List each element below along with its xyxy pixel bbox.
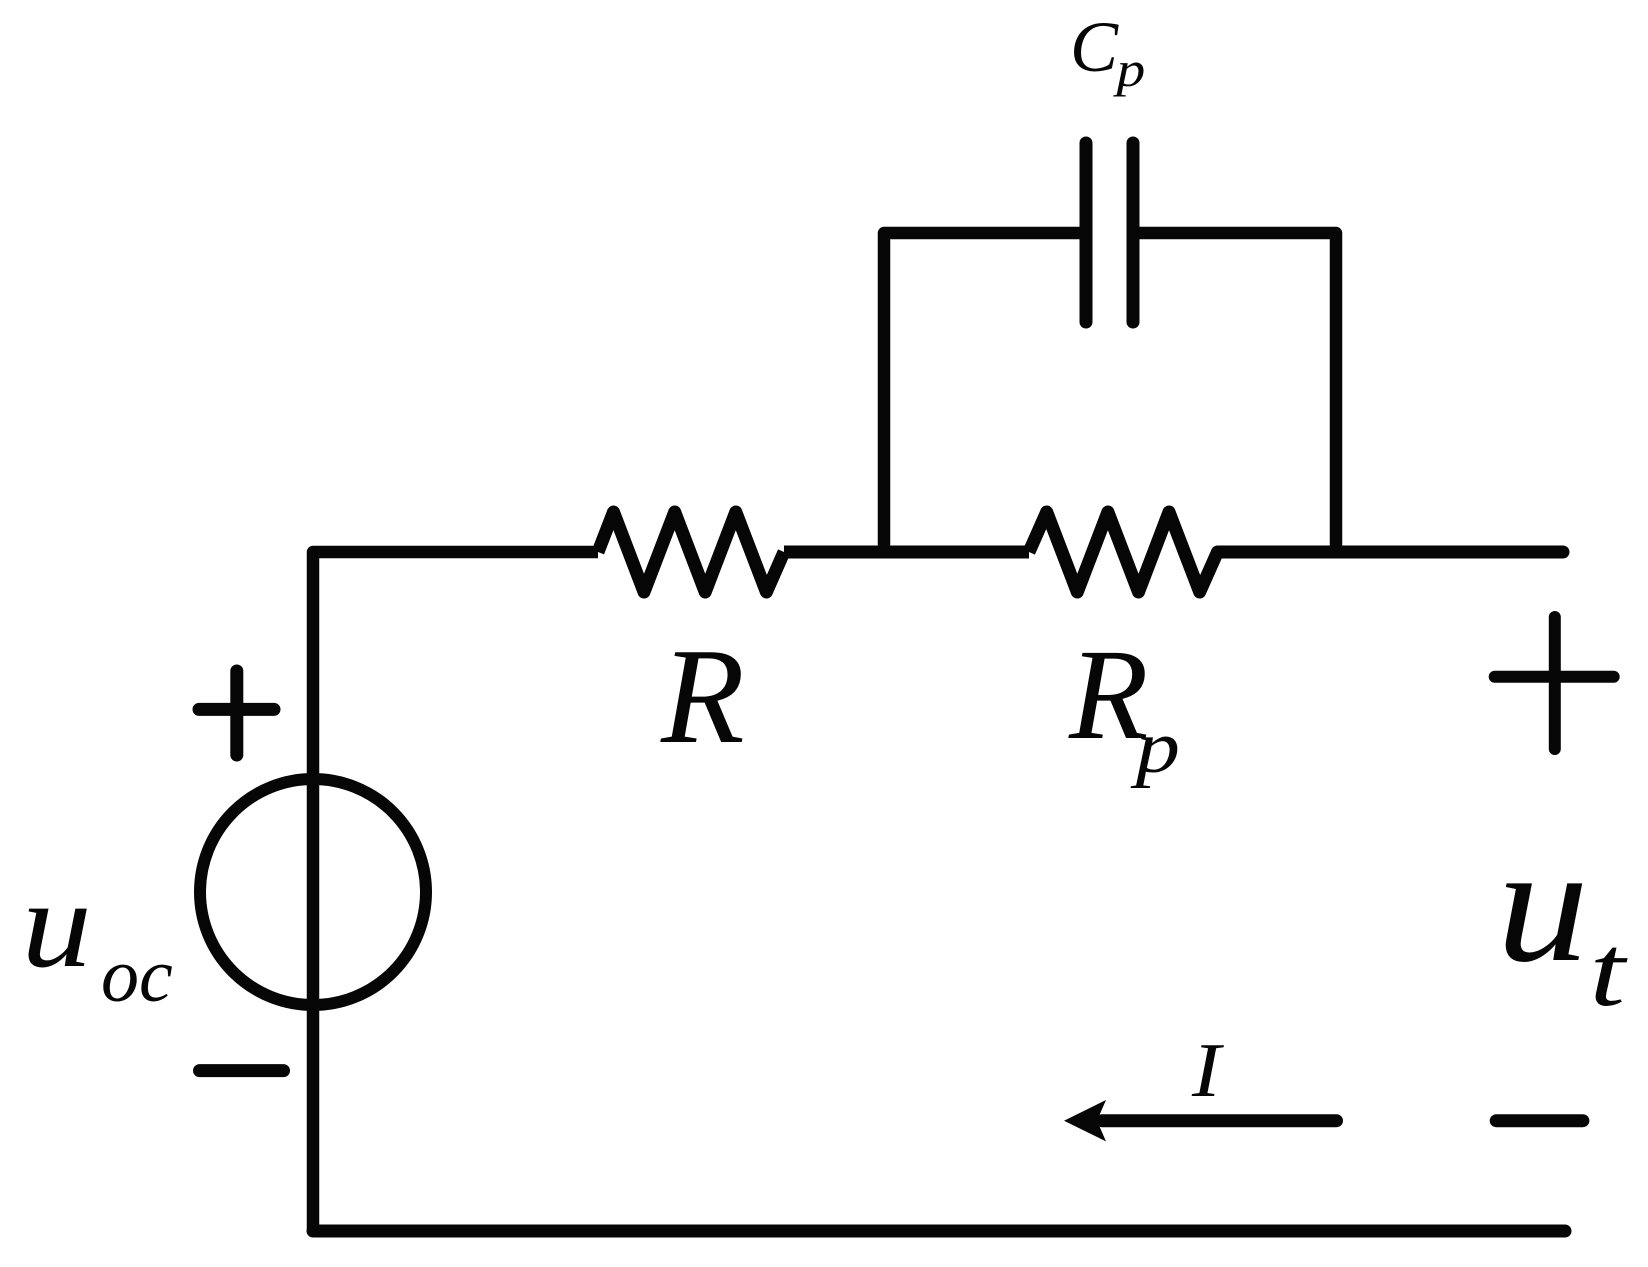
resistor Rp	[1029, 512, 1218, 592]
wire: parallel branch left riser up to capacitor	[884, 233, 1080, 552]
plus sign of voltage source uoc	[199, 671, 274, 755]
resistor R	[598, 512, 784, 592]
wire: bottom return wire	[313, 1225, 1565, 1238]
svg-text:C: C	[1070, 7, 1119, 87]
minus sign of voltage source uoc	[200, 1064, 284, 1077]
capacitor Cp left plate	[1080, 143, 1093, 322]
wire: parallel branch right riser up to capacitor	[1139, 233, 1336, 552]
svg-text:p: p	[1130, 705, 1180, 788]
svg-text:u: u	[22, 854, 92, 993]
svg-text:t: t	[1590, 915, 1629, 1028]
current arrow I pointing left	[1102, 1114, 1337, 1127]
wire: resistor R to resistor Rp	[784, 546, 1029, 559]
plus sign of terminal voltage ut	[1495, 617, 1614, 749]
voltage source U_oc circle	[200, 779, 426, 1005]
svg-text:u: u	[1497, 812, 1589, 997]
svg-text:p: p	[1112, 41, 1145, 97]
wire: resistor Rp to right terminal	[1218, 546, 1564, 559]
svg-text:I: I	[1191, 1027, 1225, 1113]
capacitor Cp right plate	[1127, 143, 1140, 322]
svg-text:oc: oc	[101, 934, 173, 1018]
svg-text:R: R	[660, 620, 745, 772]
minus sign of terminal voltage ut	[1496, 1114, 1583, 1127]
wire: left vertical + top-left horizontal from voltage source to resistor R	[313, 552, 598, 1231]
